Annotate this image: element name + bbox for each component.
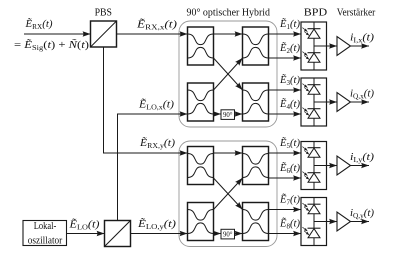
amplifier U2 — [337, 93, 351, 112]
svg-text:90°: 90° — [223, 232, 233, 239]
coupler right-top x — [243, 27, 269, 65]
wire hybrid-x to 90deg box — [214, 113, 222, 115]
coupler left-bottom y — [188, 203, 214, 241]
wire BPD output to amp U4 — [314, 221, 337, 223]
wire hybrid-x straight top — [214, 33, 243, 35]
wire hybrid-x cross down — [214, 58, 243, 90]
wire E2 — [269, 57, 302, 59]
wire hybrid-y cross down — [214, 178, 243, 210]
svg-text:Ẽ7(t): Ẽ7(t) — [279, 193, 301, 206]
wire hybrid-y straight top — [214, 152, 243, 154]
amplifier U1 — [337, 37, 351, 56]
svg-text:= ẼSig(t) + Ñ(t): = ẼSig(t) + Ñ(t) — [14, 39, 90, 52]
amplifier U4 — [337, 212, 351, 231]
coupler left-top x — [188, 27, 214, 65]
wire amp U2 output — [351, 101, 370, 103]
wire E_LO,x vertical+horizontal — [118, 114, 188, 221]
wire E1 — [269, 33, 302, 35]
coupler left-top y — [188, 147, 214, 185]
local oscillator box — [23, 221, 67, 247]
wire E_LO,y — [131, 233, 188, 235]
wire E_LO — [67, 233, 105, 235]
svg-text:Ẽ3(t): Ẽ3(t) — [279, 74, 301, 87]
90 degree phase shifter y — [221, 229, 235, 239]
wire 90deg box to coupler y — [234, 233, 243, 235]
wire amp U1 output — [351, 45, 370, 47]
svg-text:90°: 90° — [223, 112, 233, 119]
svg-text:Ẽ1(t): Ẽ1(t) — [279, 18, 301, 31]
wire amp U4 output — [351, 221, 370, 223]
wire BPD output to amp U3 — [314, 165, 337, 167]
wire E_RX,x — [117, 33, 188, 35]
svg-text:Ẽ4(t): Ẽ4(t) — [279, 98, 301, 111]
wire E5 — [269, 152, 302, 154]
wire BPD output to amp U1 — [314, 45, 337, 47]
svg-text:Ẽ5(t): Ẽ5(t) — [279, 137, 301, 150]
balanced photodetector BPD2 — [301, 78, 327, 126]
wire E7 — [269, 209, 302, 211]
coupler right-bottom x — [243, 83, 269, 121]
wire 90deg box to coupler x — [234, 113, 243, 115]
amplifier U3 — [337, 156, 351, 175]
svg-text:BPD: BPD — [304, 7, 328, 18]
wire E4 — [269, 113, 302, 115]
balanced photodetector BPD3 — [301, 142, 327, 190]
coupler left-bottom x — [188, 83, 214, 121]
svg-text:90° optischer Hybrid: 90° optischer Hybrid — [187, 7, 271, 18]
coupler right-top y — [243, 147, 269, 185]
wire BPD output to amp U2 — [314, 101, 337, 103]
90deg optical hybrid container (x-pol) — [179, 21, 277, 127]
wire input E_RX — [24, 33, 91, 35]
svg-text:oszillator: oszillator — [28, 235, 63, 246]
wire hybrid-y cross up — [214, 178, 243, 210]
svg-text:Lokal-: Lokal- — [34, 221, 57, 232]
balanced photodetector BPD1 — [301, 22, 327, 70]
svg-text:Ẽ8(t): Ẽ8(t) — [279, 217, 301, 230]
wire hybrid-x cross up — [214, 58, 243, 90]
wire E3 — [269, 89, 302, 91]
wire hybrid-y to 90deg box — [214, 233, 222, 235]
beam splitter LO splitter — [105, 221, 131, 247]
wire amp U3 output — [351, 165, 370, 167]
wire E6 — [269, 177, 302, 179]
svg-text:Ẽ2(t): Ẽ2(t) — [279, 42, 301, 55]
wire E8 — [269, 233, 302, 235]
svg-text:PBS: PBS — [95, 7, 113, 18]
coupler right-bottom y — [243, 203, 269, 241]
90 degree phase shifter x — [221, 110, 235, 120]
svg-text:Ẽ6(t): Ẽ6(t) — [279, 162, 301, 175]
svg-text:Verstärker: Verstärker — [337, 7, 376, 18]
balanced photodetector BPD4 — [301, 198, 327, 246]
90deg optical hybrid container (y-pol) — [179, 141, 277, 247]
wire E_RX,y vertical+horizontal — [104, 47, 188, 153]
polarization beam splitter PBS — [91, 21, 117, 47]
